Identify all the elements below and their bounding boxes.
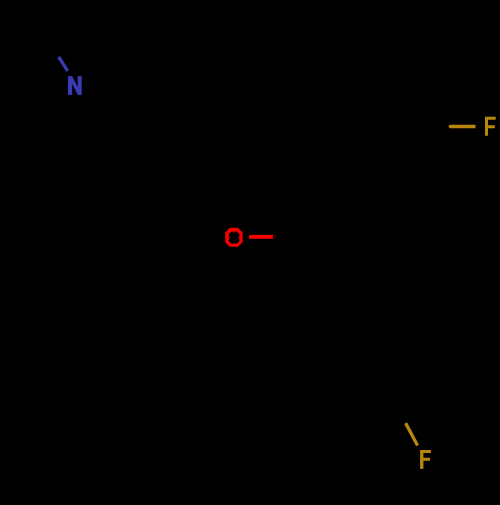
wire: ring C to F bond, bottom right (gold half) <box>404 423 419 447</box>
wire: methyl to N bond (blue half) <box>57 56 69 72</box>
node F (bottom-right fluorine) <box>420 450 431 469</box>
node F (top-right fluorine) <box>485 117 496 136</box>
wire: ring C to F bond, top right (gold half) <box>448 125 475 128</box>
node N (amine nitrogen) <box>68 76 82 95</box>
wire: O to CH bond (red half) <box>249 235 277 239</box>
node O (ether oxygen) <box>225 228 242 247</box>
